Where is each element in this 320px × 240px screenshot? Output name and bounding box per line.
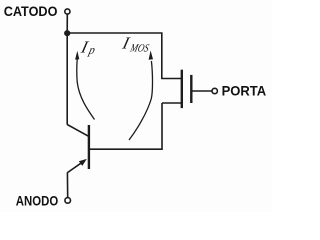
current arrow Imos <box>129 61 153 140</box>
wire MOSFET source stub <box>162 102 181 104</box>
svg-text:MOS: MOS <box>128 43 150 55</box>
svg-text:ANODO: ANODO <box>16 192 59 208</box>
terminal circle PORTA <box>212 88 217 93</box>
transistor Q1 collector diagonal <box>67 125 88 137</box>
terminal circle CATODO <box>65 9 70 14</box>
MOSFET M1 gate bar <box>190 75 192 103</box>
wire anodo lead <box>66 173 68 198</box>
svg-text:PORTA: PORTA <box>222 83 267 98</box>
current arrow Ip <box>77 59 95 120</box>
wire junction to top-right corner <box>67 33 162 79</box>
wire catodo terminal to junction <box>66 14 68 33</box>
transistor Q1 base bar <box>88 125 90 169</box>
wire gate lead to PORTA <box>192 90 212 92</box>
svg-text:CATODO: CATODO <box>4 3 58 19</box>
MOSFET M1 channel bar <box>181 70 183 108</box>
terminal circle ANODO <box>65 198 71 204</box>
transistor Q1 emitter diagonal with arrowhead <box>67 163 81 173</box>
wire MOSFET source down to base lead <box>89 103 162 149</box>
wire cathode down left side <box>66 33 68 125</box>
node junction at cathode <box>64 30 70 36</box>
wire MOSFET drain stub <box>161 78 181 80</box>
svg-text:p: p <box>87 43 97 57</box>
